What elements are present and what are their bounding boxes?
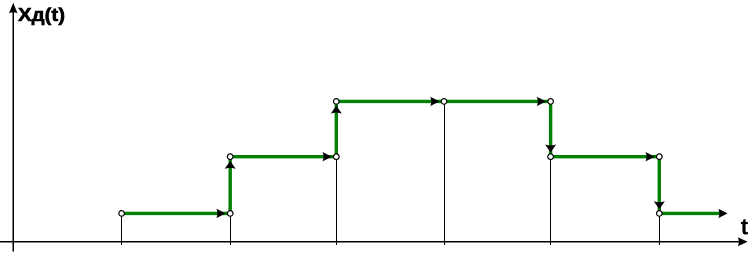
node circle t2 level1 <box>227 211 233 217</box>
arrow up riser t3 <box>331 106 342 114</box>
y-axis <box>12 4 14 252</box>
sample line t5 <box>550 157 552 245</box>
arrow down riser t6 <box>654 201 665 209</box>
sample line t4 <box>444 101 446 245</box>
node circle t6 level1 <box>657 211 663 217</box>
node circle t1 level1 <box>119 211 125 217</box>
node circle t5 level3 <box>548 99 554 105</box>
x-axis arrowhead <box>738 237 748 246</box>
sample line t6 <box>659 213 661 245</box>
node circle t4 level3 <box>441 99 447 105</box>
node circle t3 level2 <box>334 154 340 160</box>
sample line t2 <box>230 213 232 245</box>
node circle t2 level2 <box>227 154 233 160</box>
arrow up riser t2 <box>225 161 236 169</box>
y-axis arrowhead <box>9 3 18 13</box>
sample line t3 <box>336 157 338 245</box>
svg-text:Xд(t): Xд(t) <box>18 5 65 25</box>
arrow end of segment 5 <box>646 152 655 161</box>
sample line t1 <box>121 213 123 245</box>
node circle t3 level3 <box>334 99 340 105</box>
x-axis <box>0 241 740 243</box>
arrow end of segment 3 <box>430 97 439 106</box>
step segment 3 <box>336 100 444 103</box>
arrow end of segment 4 <box>537 97 546 106</box>
step segment 6 <box>659 212 719 215</box>
step riser down at t6 <box>658 157 661 214</box>
step segment 5 <box>551 155 660 158</box>
step riser up at t3 <box>335 101 338 156</box>
arrow end of segment 1 <box>216 209 225 218</box>
step riser down at t5 <box>549 101 552 156</box>
step segment 2 <box>230 155 336 158</box>
step segment 4 <box>444 100 551 103</box>
step segment 1 <box>122 212 231 215</box>
arrow end of segment 6 <box>718 209 727 218</box>
arrow down riser t5 <box>545 145 556 153</box>
node circle t5 level2 <box>548 154 554 160</box>
svg-text:t: t <box>741 214 749 240</box>
step riser up at t2 <box>228 157 231 214</box>
arrow end of segment 2 <box>323 152 332 161</box>
node circle t6 level2 <box>657 154 663 160</box>
